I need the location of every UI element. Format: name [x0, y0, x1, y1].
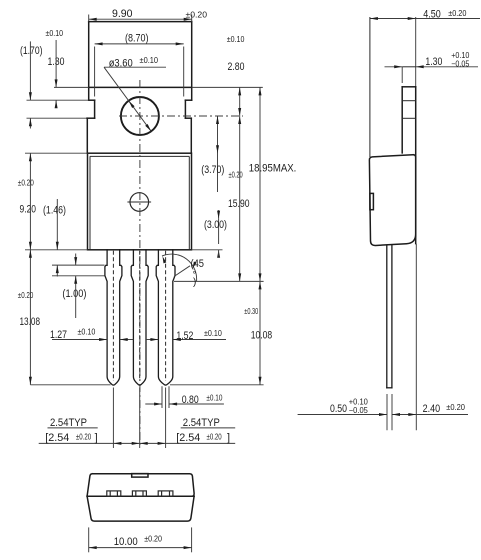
svg-text:±0.20: ±0.20 [207, 433, 223, 442]
svg-text:10.08: 10.08 [251, 330, 273, 342]
svg-text:±0.20: ±0.20 [229, 171, 244, 180]
svg-text:2.80: 2.80 [228, 61, 245, 73]
svg-text:±0.20: ±0.20 [18, 291, 34, 300]
svg-text:(45: (45 [191, 258, 205, 270]
svg-text:9.20: 9.20 [20, 203, 37, 215]
svg-text:(3.70): (3.70) [201, 164, 224, 176]
svg-text:±0.10: ±0.10 [78, 328, 96, 337]
svg-text:±0.10: ±0.10 [140, 56, 159, 65]
svg-text:18.95MAX.: 18.95MAX. [249, 163, 296, 175]
svg-text:±0.10: ±0.10 [206, 393, 222, 402]
svg-text:]: ] [95, 432, 98, 444]
svg-text:0.50: 0.50 [330, 403, 347, 415]
svg-text:±0.20: ±0.20 [186, 10, 208, 19]
svg-text:(1.00): (1.00) [62, 288, 86, 300]
svg-text:±0.10: ±0.10 [227, 35, 245, 44]
svg-text:±0.20: ±0.20 [144, 535, 162, 544]
svg-text:±0.20: ±0.20 [76, 433, 92, 442]
svg-text:±0.20: ±0.20 [448, 9, 467, 18]
svg-text:2.40: 2.40 [423, 403, 441, 415]
svg-text:9.90: 9.90 [112, 8, 133, 20]
svg-text:±0.20: ±0.20 [18, 179, 34, 188]
svg-text:2.54TYP: 2.54TYP [183, 417, 220, 429]
svg-text:ø3.60: ø3.60 [109, 58, 133, 70]
svg-text:]: ] [227, 432, 230, 444]
svg-text:±0.10: ±0.10 [46, 29, 64, 38]
svg-text:2.54TYP: 2.54TYP [50, 417, 87, 429]
svg-text:10.00: 10.00 [114, 536, 138, 548]
svg-text:(8.70): (8.70) [125, 33, 149, 45]
svg-text:±0.10: ±0.10 [204, 329, 222, 338]
svg-text:(3.00): (3.00) [204, 219, 227, 231]
svg-text:(1.70): (1.70) [20, 45, 43, 57]
svg-text:(1.46): (1.46) [43, 204, 66, 216]
svg-text:±0.30: ±0.30 [244, 307, 258, 316]
svg-text:[2.54: [2.54 [45, 432, 69, 444]
svg-text:13.08: 13.08 [20, 316, 41, 328]
svg-text:[2.54: [2.54 [176, 432, 200, 444]
svg-text:−0.05: −0.05 [349, 406, 369, 415]
svg-text:1.30: 1.30 [425, 56, 442, 68]
svg-text:15.90: 15.90 [228, 198, 250, 210]
svg-text:±0.20: ±0.20 [446, 403, 465, 412]
svg-text:4.50: 4.50 [423, 8, 441, 20]
svg-text:): ) [193, 277, 196, 288]
